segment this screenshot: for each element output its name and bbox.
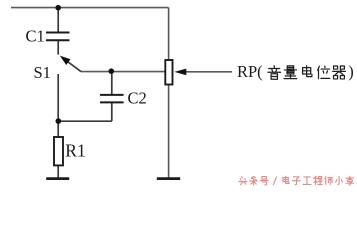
svg-text:RP(: RP( bbox=[237, 62, 263, 81]
svg-text:): ) bbox=[348, 62, 354, 81]
svg-text:C2: C2 bbox=[128, 88, 147, 107]
svg-text:R1: R1 bbox=[65, 141, 85, 161]
svg-text:S1: S1 bbox=[34, 63, 51, 82]
svg-text:C1: C1 bbox=[26, 27, 45, 46]
